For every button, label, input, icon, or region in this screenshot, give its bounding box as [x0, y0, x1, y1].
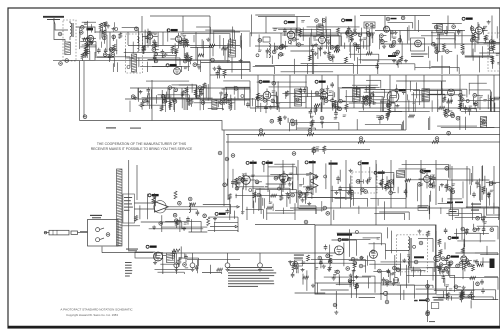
wire mesh top band left — [97, 27, 250, 73]
wire brightness — [427, 280, 429, 322]
tube V8 — [384, 26, 390, 32]
label VERT OSC 6SN7 — [374, 171, 384, 174]
label 5U8 B — [262, 161, 272, 164]
label AF OUT 6AQ5 — [146, 245, 156, 248]
wire vert x224 — [223, 130, 225, 206]
tuner coil B — [132, 54, 137, 72]
tube V20 — [369, 250, 377, 258]
capacitor CPW — [481, 288, 485, 294]
stage V10 — [470, 24, 487, 43]
volume detail box — [123, 194, 134, 223]
interlock plug — [156, 253, 166, 259]
wire phono — [80, 231, 88, 233]
wire mesh right col — [436, 226, 498, 255]
horiz control text — [294, 255, 304, 259]
label HORIZ OSC 6SN7 — [338, 238, 348, 241]
wire bot v1 — [386, 291, 388, 300]
ref L12a — [482, 120, 486, 124]
ref A1 — [178, 201, 182, 205]
ref A2 — [188, 197, 192, 201]
tube V13 — [387, 91, 399, 103]
osc box — [263, 37, 270, 42]
label POWER TRANS — [414, 256, 424, 258]
ref RB3 — [359, 137, 363, 141]
fine tuning text — [419, 207, 428, 208]
ref RB7 — [292, 152, 296, 156]
resistor RBT — [307, 255, 310, 261]
bottom copyright — [60, 307, 133, 317]
ref S1a — [106, 233, 110, 237]
label B plus arrow — [233, 206, 239, 208]
ref C2 — [65, 59, 69, 63]
transformer T5 — [295, 89, 302, 106]
resistor R21 — [207, 218, 210, 226]
transformer T3 — [317, 25, 323, 36]
wire vert xa — [128, 160, 130, 250]
vert trans coil B — [408, 256, 410, 266]
ref mid b — [231, 154, 235, 158]
ground GB3 — [301, 268, 305, 272]
horiz osc box — [315, 225, 436, 294]
sync band verticals — [253, 160, 494, 225]
ref C4 — [80, 31, 84, 35]
bus y32 — [95, 31, 465, 34]
notes paragraph — [228, 267, 276, 287]
volume detail text — [124, 197, 133, 211]
cluster afc parts 2 — [356, 178, 372, 185]
ref A3 — [203, 214, 207, 218]
wire tuner down B — [83, 61, 85, 117]
label 6W6 vert — [420, 170, 430, 173]
resistor RB3 — [358, 141, 365, 144]
width control box — [449, 210, 459, 216]
stage V12 — [314, 89, 339, 115]
phono plug P2 — [71, 231, 88, 234]
cluster vert parts 1 — [379, 179, 396, 195]
ref BR2 — [426, 298, 430, 302]
dial lamp notes — [125, 262, 132, 277]
resistor RB6 — [432, 141, 439, 144]
wire long B — [226, 133, 500, 135]
bus y65 — [255, 64, 378, 66]
label 5U8 A — [246, 161, 256, 164]
ref BR1 — [426, 285, 430, 289]
resistor RB1 — [258, 133, 265, 136]
balun core — [72, 23, 73, 37]
ref C1 — [58, 32, 62, 36]
stage V6 — [311, 34, 331, 56]
coil L5 — [269, 44, 270, 58]
vert trans dashed box — [397, 235, 428, 272]
coil L20 — [189, 203, 191, 213]
wire stubs top band left — [100, 29, 242, 58]
ground G3 — [461, 51, 465, 55]
wire tuner down A — [79, 61, 81, 121]
wire audio bus — [102, 247, 154, 253]
stage V18 — [419, 173, 436, 189]
cluster if left 4 — [219, 91, 232, 111]
top band vertical wires — [110, 16, 492, 80]
cluster vif parts 5 — [361, 93, 376, 107]
resistor RB2 — [307, 133, 314, 136]
cluster ho parts 4 — [332, 275, 359, 291]
tube V1 — [87, 35, 93, 41]
label VERT OSC 12AU7 — [447, 255, 459, 258]
label B plus arrow2 — [235, 225, 238, 227]
tube V17 triangles — [310, 173, 318, 190]
wire hv down — [335, 291, 337, 309]
note cooperation — [91, 142, 193, 151]
cluster top right — [392, 52, 408, 68]
svg-text:Copyright Howard W. Sams Co. I: Copyright Howard W. Sams Co. Inc. 1953 — [66, 313, 118, 317]
label 4.5mhz — [386, 17, 396, 21]
cluster afc parts — [335, 176, 353, 200]
svg-text:THE COOPERATION OF THE MANUFAC: THE COOPERATION OF THE MANUFACTURER OF T… — [97, 142, 187, 146]
wire mesh video if left — [139, 81, 250, 111]
tube V9 — [415, 40, 422, 47]
vert trans coil A — [408, 237, 410, 251]
tuner shield dashed box — [63, 20, 76, 61]
speaker jack — [380, 292, 388, 296]
ref C6 — [59, 62, 63, 66]
wire stubs front end — [80, 22, 115, 48]
label tuner detail — [106, 127, 116, 128]
wire long A — [80, 121, 407, 131]
output trans T8 — [167, 253, 175, 263]
ground GHV — [334, 311, 338, 315]
crt socket — [490, 259, 495, 269]
bus y108 — [250, 107, 500, 109]
ref mid c — [225, 157, 229, 161]
cluster vert parts 3 — [475, 180, 496, 195]
label HORIZ AFC — [329, 163, 338, 165]
tube V14 — [448, 89, 455, 96]
label 1ST SOUND IF 6AU6 — [284, 21, 294, 24]
cluster rf parts — [152, 48, 167, 63]
ref BT4 — [385, 300, 389, 304]
ref BR3 — [426, 312, 430, 316]
electrolytic C42 — [290, 262, 294, 266]
label T4 — [437, 34, 444, 35]
right dashed box — [488, 33, 500, 71]
coil L2 — [65, 42, 71, 55]
bus y208 — [290, 207, 500, 209]
cluster video parts 3 — [444, 109, 460, 120]
label AF AMP 6AV6 — [462, 17, 472, 20]
ref SY1 — [323, 206, 327, 210]
svg-text:RECEIVER MAKES IT POSSIBLE TO: RECEIVER MAKES IT POSSIBLE TO BRING YOU … — [91, 147, 193, 151]
label 1st video label — [305, 161, 315, 164]
ref RB2 — [308, 129, 312, 133]
wire bot v2 — [443, 291, 445, 297]
cluster right col b — [436, 239, 451, 286]
cluster rect parts 2 — [459, 259, 477, 272]
label volume control — [215, 212, 225, 215]
trap coil L10 — [212, 100, 217, 110]
label width — [450, 211, 457, 212]
label RF AMP 6AB4 — [167, 29, 177, 32]
wire balun to V1 — [76, 27, 95, 33]
tube V21 damper — [434, 255, 440, 261]
ref HO1 — [414, 260, 418, 264]
ref bend — [83, 115, 87, 119]
ref HO3 — [304, 220, 308, 224]
cluster sync b — [298, 187, 313, 205]
wire osc feed — [183, 34, 230, 40]
wire vert xb — [136, 165, 138, 200]
label MIXER 6AB4 — [166, 64, 176, 67]
cluster audio out — [173, 250, 188, 267]
wire mesh antenna area — [80, 21, 96, 58]
cluster sync a — [223, 179, 240, 202]
transformer T2 — [229, 40, 236, 57]
stage V16 — [235, 173, 262, 191]
wire crt — [480, 261, 490, 263]
cluster front gap — [99, 22, 107, 38]
switch contact 1 — [96, 228, 104, 232]
cluster vif parts 2 — [278, 116, 298, 132]
tube V19 — [335, 246, 344, 255]
label HORIZ AFC 2 — [337, 234, 352, 236]
cluster sound if 2 — [328, 45, 339, 62]
tube V22 — [461, 256, 467, 262]
label if cable — [130, 128, 141, 129]
switch box S1 — [88, 220, 119, 247]
cluster af amp — [432, 42, 453, 53]
vert linearity text — [471, 204, 481, 211]
ref RB5 — [447, 131, 451, 135]
cluster vif parts 3 — [309, 109, 324, 129]
wire mesh horiz box — [324, 227, 433, 288]
vert trans core — [410, 238, 411, 268]
cluster between2 — [103, 44, 117, 62]
label t3 values — [318, 24, 322, 26]
label ANT — [87, 28, 94, 31]
stage V17 — [274, 171, 293, 190]
cluster ho parts 3 — [382, 266, 400, 285]
cluster ho parts 2 — [346, 256, 366, 275]
label 350V — [429, 321, 435, 322]
resistor RPW — [472, 265, 475, 271]
label VERT OUTPUT 6AU5 — [448, 236, 458, 239]
ref RB1 — [259, 129, 263, 133]
wire y60 right — [183, 58, 215, 62]
ground GB2 — [191, 268, 195, 272]
ref T3a — [315, 19, 319, 23]
cluster mixer parts — [183, 53, 201, 70]
ref T3b — [322, 19, 326, 23]
ref HO2 — [419, 241, 423, 245]
bus y88 — [130, 87, 250, 89]
cluster vif parts 4 — [334, 99, 348, 118]
wire mesh bottom right — [381, 258, 499, 301]
cluster V1 parts — [84, 41, 92, 60]
wire vert xc — [180, 246, 182, 258]
peaking coil L12 — [480, 117, 486, 128]
bottom border line — [8, 326, 500, 329]
bus y223 — [255, 224, 315, 226]
tube V15B audio out — [154, 252, 163, 261]
cluster bottom 1 — [288, 260, 305, 273]
label deemphasis — [388, 55, 396, 57]
wire long C — [226, 141, 500, 143]
antenna — [43, 17, 64, 24]
cluster ratio det — [355, 31, 375, 53]
wire vert x228b — [227, 134, 229, 200]
svg-text:A PHOTOFACT STANDARD NOTATION: A PHOTOFACT STANDARD NOTATION SCHEMATIC — [60, 307, 133, 311]
fuse resistor — [172, 249, 180, 252]
bus y75 — [210, 74, 500, 76]
wire box bottom — [315, 282, 400, 284]
bus y99 — [125, 98, 255, 100]
label am fm phono — [90, 215, 102, 219]
label brightness — [414, 300, 427, 302]
interlock labels — [126, 249, 138, 252]
stage V7 — [337, 26, 361, 52]
wire antenna lead — [55, 24, 68, 30]
ref C9 — [336, 45, 340, 49]
resistor R9 — [334, 49, 340, 52]
ref PW1 — [476, 282, 480, 286]
interlock box — [135, 252, 155, 258]
label 1ST VIDEO IF 6CB6 — [259, 80, 269, 83]
transformer T7 — [422, 89, 430, 101]
cluster video parts 1 — [376, 102, 391, 124]
balun coil L1 — [70, 21, 72, 40]
stage V5 — [280, 28, 304, 50]
ground GB1 — [174, 268, 178, 272]
wire switch out — [120, 225, 140, 227]
ref tuner top — [135, 27, 139, 31]
cluster ho parts 1 — [318, 254, 338, 273]
electrolytic C40 — [174, 253, 179, 268]
wire V1 down — [61, 52, 96, 60]
cluster right col a — [473, 215, 487, 235]
tuner coil A — [138, 37, 140, 52]
ref C3 — [81, 26, 85, 30]
brightness text — [433, 297, 445, 301]
cluster bottom right 2 — [460, 291, 475, 309]
cluster if left 3 — [187, 86, 205, 107]
cluster if left 2 — [163, 86, 178, 104]
horiz control box — [295, 260, 303, 266]
wire t2 down — [231, 58, 233, 73]
wire mesh routing gap — [270, 115, 500, 130]
bus y253 — [155, 252, 335, 254]
ac plug — [393, 277, 398, 282]
cluster sound if 1 — [272, 46, 284, 64]
volume shaft hatch — [117, 169, 123, 246]
cluster video parts 4 — [473, 94, 493, 110]
wire audio out — [169, 206, 234, 208]
stage V11 — [256, 89, 280, 114]
wire mesh bottom mid — [291, 259, 375, 298]
cluster if left 1 — [131, 87, 150, 109]
transformer T4 — [437, 24, 443, 32]
wire mesh audio — [135, 193, 238, 232]
wire mesh video if right — [255, 80, 500, 112]
ref C10 — [452, 25, 456, 29]
wire right v2 — [483, 208, 485, 230]
afc dashed box — [352, 172, 377, 193]
resistor R20 — [174, 191, 177, 199]
resistor R12 — [461, 44, 464, 50]
capacitor C5 — [97, 48, 101, 54]
ref BT1 — [183, 263, 187, 267]
trap box — [364, 22, 375, 28]
cluster vert parts 2 — [439, 183, 455, 202]
tuner dashed box — [126, 34, 143, 73]
transformer T9 — [397, 171, 405, 178]
label 6AU5 right — [447, 202, 463, 204]
cluster rect parts 1 — [438, 261, 453, 276]
wire audio out2 — [210, 226, 235, 228]
ref BT3 — [426, 311, 430, 315]
label 6AL5 afc — [358, 162, 368, 165]
cluster det out — [379, 30, 397, 48]
electrolytic C42b — [225, 253, 230, 272]
wire stubs top band right — [250, 20, 497, 58]
wire mesh sync lower left — [253, 184, 316, 214]
cluster front gap2 — [81, 49, 89, 61]
wire right v1 — [461, 208, 463, 240]
bus y16 — [150, 16, 430, 17]
label 1ST AF 6AV6 — [148, 194, 158, 197]
ground GA1 — [213, 217, 217, 221]
ref RB4 — [435, 137, 439, 141]
label VIDEO AMP 6AG7 — [395, 89, 405, 92]
cluster bottom right — [446, 285, 466, 301]
cluster mid wire — [312, 146, 326, 155]
brightness box — [431, 303, 439, 309]
wire mesh bottom left — [153, 257, 240, 274]
capacitor CA1 — [196, 210, 200, 216]
wire mesh sync band — [230, 163, 500, 220]
note model text — [411, 54, 428, 57]
ref BT2 — [333, 303, 337, 307]
wire T4 out — [442, 29, 462, 31]
bus y45 — [128, 44, 500, 46]
wire triode in — [134, 203, 154, 209]
ref mid a — [218, 151, 222, 155]
wire stubs sync band — [233, 165, 494, 214]
wire right v3 — [435, 225, 437, 291]
wire antenna loop — [54, 18, 65, 42]
cluster video parts 2 — [459, 93, 474, 115]
video if verticals — [138, 75, 494, 130]
tube V4 mixer — [174, 68, 181, 75]
stage V2 RF amp — [142, 31, 158, 54]
cluster right edge — [489, 39, 499, 64]
phono plug P1 — [44, 230, 69, 235]
wire stubs mid band — [130, 84, 490, 113]
switch contact 2 — [96, 238, 104, 242]
electrolytic C43b — [258, 253, 263, 272]
wire mesh top band right — [252, 15, 500, 75]
discriminator box — [411, 38, 425, 51]
triode triangle V15 — [154, 201, 169, 213]
bus y60 — [53, 59, 230, 61]
cluster osc parts — [213, 65, 226, 79]
transformer T6 — [353, 89, 361, 102]
cluster between — [102, 22, 115, 41]
electrolytic C41 — [190, 253, 195, 268]
wire y149 — [260, 149, 370, 151]
label 2ND VIDEO IF 6CB6 — [315, 80, 325, 83]
fine tuning box — [418, 206, 428, 211]
cluster audio mid — [175, 216, 190, 230]
stage V3 converter — [170, 33, 189, 57]
